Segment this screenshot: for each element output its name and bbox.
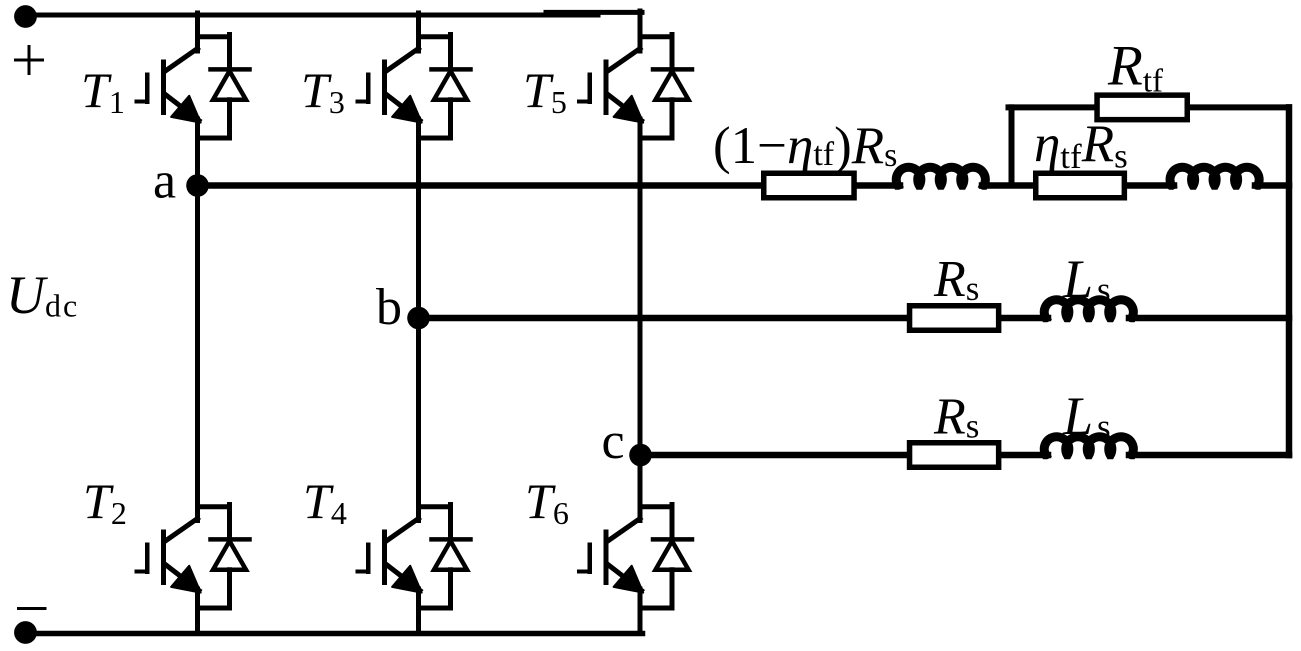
label - (negative terminal)	[19, 607, 46, 610]
IGBT transistor T1	[137, 49, 201, 123]
anti-parallel diode of T2	[198, 505, 250, 609]
node b	[407, 307, 430, 330]
wire: Rs to Ls (phase c)	[1001, 452, 1048, 459]
IGBT transistor T5	[579, 49, 643, 123]
wire: DC rail to upper IGBT collector (leg a)	[195, 13, 200, 51]
wire: lower IGBT emitter to negative rail (leg c)	[638, 589, 643, 634]
wire: node a to lower IGBT collector	[195, 186, 200, 521]
IGBT transistor T3	[358, 49, 422, 123]
node a	[186, 174, 209, 197]
wire: upper IGBT emitter to node b	[416, 119, 421, 318]
wire: node b to lower IGBT collector	[416, 318, 421, 521]
wire: DC rail to upper IGBT collector (leg c)	[638, 11, 643, 51]
wire: coil to fault tap junction	[982, 182, 1036, 189]
wire: right bus vertical (star point side)	[1286, 107, 1293, 455]
node c	[629, 444, 652, 467]
label + (positive terminal)	[16, 59, 43, 62]
wire: positive DC rail (top)	[25, 13, 598, 18]
svg-text:a: a	[153, 153, 176, 210]
wire: second coil to right bus	[1255, 182, 1289, 189]
resistor Rtf (turn fault resistance)	[1097, 95, 1187, 120]
resistor Rs (phase b)	[910, 306, 999, 331]
anti-parallel diode of T6	[640, 505, 692, 609]
resistor Rs (phase c)	[910, 443, 999, 468]
anti-parallel diode of T3	[419, 35, 471, 139]
wire: Ls to right bus (phase b)	[1129, 315, 1289, 322]
terminal: positive DC input	[14, 5, 37, 28]
svg-text:b: b	[376, 279, 402, 336]
wire: ntfRs to second coil	[1127, 182, 1174, 189]
wire: lower IGBT emitter to negative rail (leg b)	[416, 589, 421, 634]
wire: resistor to first coil (phase a)	[857, 182, 900, 189]
resistor (1-ntf)Rs (healthy winding resistance)	[764, 173, 854, 198]
wire: negative DC rail (bottom)	[25, 631, 643, 637]
wire: node b to resistor Rs (phase b)	[419, 315, 911, 322]
IGBT transistor T6	[579, 519, 643, 593]
svg-text:c: c	[602, 413, 625, 470]
wire: riser from tap to Rtf branch	[1009, 107, 1015, 185]
wire: lower IGBT emitter to negative rail (leg a)	[195, 589, 200, 634]
wire: Rs to Ls (phase b)	[1001, 315, 1048, 322]
wire: upper IGBT emitter to node c	[638, 119, 643, 455]
svg-text:(1−ηtf)Rs: (1−ηtf)Rs	[713, 117, 897, 175]
wire: Rtf branch right segment	[1190, 104, 1289, 110]
wire: Ls to right bus (phase c)	[1129, 452, 1289, 459]
wire: Rtf branch left segment	[1009, 104, 1098, 110]
wire: DC rail to upper IGBT collector (leg b)	[416, 13, 421, 51]
resistor ntfRs (faulted turns resistance)	[1036, 173, 1125, 198]
terminal: negative DC input	[14, 621, 37, 644]
svg-text:ηtfRs: ηtfRs	[1034, 115, 1128, 176]
anti-parallel diode of T5	[640, 35, 692, 139]
wire: node c to lower IGBT collector	[638, 455, 643, 521]
wire: upper IGBT emitter to node a	[195, 119, 200, 186]
IGBT transistor T4	[358, 519, 422, 593]
anti-parallel diode of T4	[419, 505, 471, 609]
wire: node c to resistor Rs (phase c)	[640, 452, 910, 459]
IGBT transistor T2	[137, 519, 201, 593]
wire: node a to resistor (1-ntf)Rs	[198, 182, 764, 189]
anti-parallel diode of T1	[198, 35, 250, 139]
